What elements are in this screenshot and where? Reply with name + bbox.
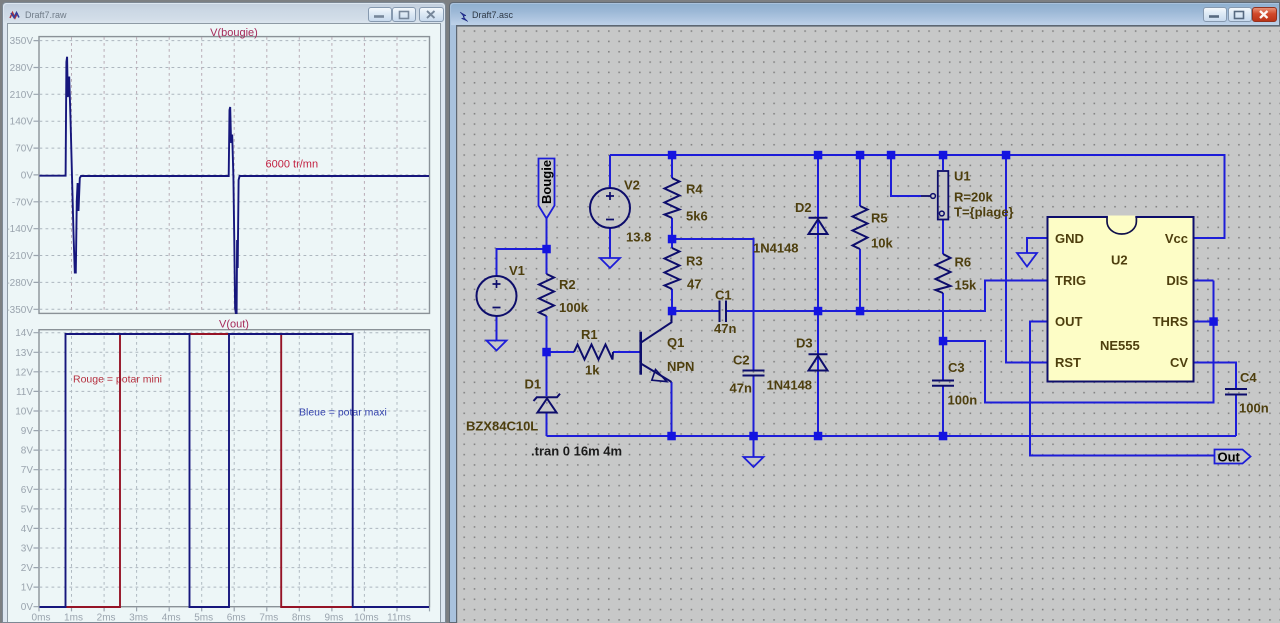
resistor R2 body	[539, 274, 554, 316]
pane 1 y ticks	[34, 41, 40, 310]
node D3 ground bus	[814, 432, 823, 441]
pane 2 x labels	[32, 613, 411, 623]
left window: Draft7.raw waveform viewer	[2, 2, 446, 623]
wire U1 bottom to R6	[942, 220, 944, 255]
pane 1 grid	[40, 41, 430, 310]
svg-text:.tran 0 16m 4m: .tran 0 16m 4m	[531, 444, 622, 459]
node E R2/R1/D1	[542, 348, 551, 357]
svg-text:V2: V2	[624, 178, 640, 193]
wire R5 bottom lead	[859, 249, 861, 311]
voltage source V2 circle	[590, 188, 630, 228]
svg-text:TRIG: TRIG	[1055, 273, 1086, 288]
node D2 top bus	[814, 151, 823, 160]
svg-text:4ms: 4ms	[162, 613, 181, 623]
svg-text:5ms: 5ms	[194, 613, 213, 623]
node Q1 emitter ground bus	[667, 432, 676, 441]
svg-text:12V: 12V	[15, 367, 33, 378]
svg-text:1ms: 1ms	[64, 613, 83, 623]
node THRS/DIS	[1209, 317, 1218, 326]
pane 1 y labels	[6, 36, 33, 316]
svg-text:47n: 47n	[730, 381, 752, 396]
svg-text:8ms: 8ms	[292, 613, 311, 623]
node D2/D3 trigger line	[814, 307, 823, 316]
svg-text:V1: V1	[509, 263, 525, 278]
svg-text:6000 tr/mn: 6000 tr/mn	[266, 159, 319, 171]
svg-text:D1: D1	[525, 377, 542, 392]
svg-text:R4: R4	[686, 182, 703, 197]
svg-text:100k: 100k	[559, 300, 589, 315]
wire top supply bus	[610, 155, 1225, 238]
svg-text:NE555: NE555	[1100, 338, 1140, 353]
wire V2 top lead	[609, 155, 611, 189]
node A R4/R3/C2	[668, 235, 677, 244]
svg-text:100n: 100n	[1239, 401, 1269, 416]
wire R4 top	[671, 155, 673, 178]
wire Bougie port to node D	[546, 219, 548, 250]
potentiometer U1 body	[938, 171, 949, 220]
svg-text:R6: R6	[955, 255, 972, 270]
close	[1252, 7, 1277, 22]
pane 2 y ticks	[34, 333, 40, 607]
svg-text:D2: D2	[795, 200, 812, 215]
wire C2 ground stem	[753, 436, 755, 457]
minimize	[1203, 7, 1227, 22]
svg-text:6V: 6V	[21, 485, 34, 496]
node C R6/C3/THRS	[939, 337, 948, 346]
svg-text:Q1: Q1	[667, 335, 684, 350]
svg-text:Rouge = potar mini: Rouge = potar mini	[73, 374, 162, 386]
svg-text:70V: 70V	[15, 144, 33, 155]
svg-text:Vcc: Vcc	[1165, 231, 1188, 246]
node R4 top bus	[668, 151, 677, 160]
ground symbol at U2 GND	[1017, 253, 1037, 267]
right window: Draft7.asc schematic	[449, 2, 1280, 623]
svg-text:8V: 8V	[21, 446, 34, 457]
wire CV to C4	[1194, 363, 1237, 390]
capacitor C3 plates	[932, 381, 954, 386]
junction nodes	[542, 151, 1218, 441]
svg-text:15k: 15k	[955, 278, 977, 293]
svg-text:350V: 350V	[10, 36, 34, 47]
wire Q1 emitter to ground bus	[671, 382, 673, 436]
wire D1 top lead	[546, 352, 548, 396]
wire R6 bottom to node C	[942, 293, 944, 381]
pane 2 grid verticals	[72, 330, 398, 606]
ground symbol under V2	[600, 258, 620, 268]
svg-text:R3: R3	[686, 254, 703, 269]
svg-text:U1: U1	[954, 169, 971, 184]
svg-text:3ms: 3ms	[129, 613, 148, 623]
wire trigger line left of C1	[672, 310, 720, 312]
svg-text:-210V: -210V	[7, 251, 33, 262]
IC U2 NE555 body	[1048, 216, 1194, 382]
resistor R3 body	[665, 248, 680, 289]
wire U1 wiper from bus	[891, 155, 921, 196]
maximize	[1228, 7, 1252, 22]
wire DIS pin	[1194, 280, 1214, 282]
svg-text:280V: 280V	[10, 63, 34, 74]
pane 2 y labels	[15, 328, 33, 613]
svg-text:-140V: -140V	[7, 224, 33, 235]
svg-text:10k: 10k	[871, 236, 893, 251]
diode D3	[809, 354, 828, 370]
node U1 top bus	[939, 151, 948, 160]
wire Vcc bus to RST	[1006, 155, 1048, 363]
resistor R5 body	[853, 206, 868, 249]
LTspice icon	[459, 11, 469, 24]
svg-text:5k6: 5k6	[686, 209, 708, 224]
svg-text:R5: R5	[871, 211, 888, 226]
svg-text:100n: 100n	[948, 393, 978, 408]
svg-text:C4: C4	[1240, 370, 1257, 385]
svg-text:Bougie: Bougie	[539, 160, 554, 204]
wire R1 to Q1 base	[613, 351, 641, 353]
node U1 wiper bus	[887, 151, 896, 160]
svg-text:V(bougie): V(bougie)	[210, 27, 258, 39]
svg-text:0V: 0V	[21, 170, 34, 181]
wire R3 bottom to node B	[671, 289, 673, 311]
svg-text:R2: R2	[559, 277, 576, 292]
wire C3 bottom to ground bus	[942, 386, 944, 436]
transistor Q1	[639, 332, 642, 375]
svg-text:11V: 11V	[16, 387, 33, 398]
svg-text:1N4148: 1N4148	[753, 241, 799, 256]
wire V1 bottom to ground	[496, 316, 498, 341]
svg-text:NPN: NPN	[667, 359, 694, 374]
svg-text:R1: R1	[581, 327, 598, 342]
wire ground bus bottom	[547, 435, 1237, 437]
svg-text:10V: 10V	[15, 407, 33, 418]
svg-text:7V: 7V	[21, 465, 34, 476]
wire node D to V1	[497, 249, 547, 276]
svg-text:2ms: 2ms	[97, 613, 116, 623]
wire trigger line right of C1 to TRIG	[726, 281, 1048, 312]
resistor R6 body	[936, 254, 951, 293]
svg-text:13V: 13V	[15, 348, 33, 359]
wire D3 column	[817, 311, 819, 436]
wire R2 bottom lead	[546, 316, 548, 352]
wire OUT pin to Out port	[1030, 322, 1215, 456]
svg-text:47: 47	[687, 277, 701, 292]
svg-text:GND: GND	[1055, 231, 1084, 246]
svg-text:2V: 2V	[21, 563, 34, 574]
svg-text:DIS: DIS	[1166, 273, 1188, 288]
wire C2 bottom to ground bus	[753, 376, 755, 437]
node C2 ground bus	[749, 432, 758, 441]
wire U1 top lead	[942, 155, 944, 170]
svg-text:9V: 9V	[21, 426, 34, 437]
svg-text:13.8: 13.8	[626, 230, 651, 245]
svg-text:RST: RST	[1055, 355, 1081, 370]
trace V(bougie)	[40, 57, 430, 313]
svg-text:14V: 14V	[15, 328, 33, 339]
wire C4 bottom to ground bus	[1235, 395, 1237, 437]
zener diode D1	[534, 394, 561, 401]
svg-text:47n: 47n	[714, 321, 736, 336]
node C3 ground bus	[939, 432, 948, 441]
wire D2 column	[817, 155, 819, 311]
svg-text:-70V: -70V	[12, 197, 33, 208]
minimize	[368, 7, 392, 22]
svg-text:11ms: 11ms	[387, 613, 411, 623]
voltage source V1 circle	[477, 276, 517, 316]
waveform plot contents	[7, 24, 441, 623]
resistor R1 body	[574, 345, 613, 360]
svg-text:3V: 3V	[21, 544, 34, 555]
capacitor C2 plates	[743, 371, 765, 376]
node D Bougie/V1/R2	[542, 245, 551, 254]
wire THRS pin	[1194, 321, 1214, 323]
svg-text:U2: U2	[1111, 253, 1128, 268]
wire GND pin to ground	[1027, 238, 1048, 253]
trace V(out) red potar mini	[40, 334, 430, 607]
maximize	[392, 7, 416, 22]
svg-text:6ms: 6ms	[227, 613, 246, 623]
svg-text:-350V: -350V	[7, 305, 33, 316]
ground symbol under V1	[487, 341, 507, 351]
svg-text:C3: C3	[948, 360, 965, 375]
svg-text:10ms: 10ms	[354, 613, 378, 623]
wire R2 top lead	[546, 249, 548, 274]
capacitor C4 plates	[1225, 389, 1247, 395]
window icon left	[9, 10, 22, 23]
wire node E to R1	[547, 351, 575, 353]
svg-text:THRS: THRS	[1153, 314, 1189, 329]
svg-text:CV: CV	[1170, 355, 1188, 370]
svg-text:7ms: 7ms	[259, 613, 278, 623]
port flag Out	[1215, 450, 1251, 464]
svg-text:OUT: OUT	[1055, 314, 1083, 329]
pane 2 frame V(out)	[39, 330, 430, 607]
wire R4 to R3 node A	[671, 218, 673, 248]
resistor R4 body	[665, 178, 680, 218]
svg-text:4V: 4V	[21, 524, 34, 535]
schematic contents	[456, 25, 1280, 623]
svg-text:C1: C1	[715, 288, 732, 303]
svg-text:1N4148: 1N4148	[767, 378, 813, 393]
svg-text:0ms: 0ms	[32, 613, 51, 623]
svg-text:R=20k: R=20k	[954, 190, 993, 205]
svg-text:140V: 140V	[10, 117, 34, 128]
svg-text:T={plage}: T={plage}	[954, 205, 1014, 220]
wire V2 bottom to ground	[609, 228, 611, 259]
wire node A to C2 column	[672, 239, 754, 371]
wire node C to THRS/DIS	[943, 281, 1214, 403]
node R5 top bus	[856, 151, 865, 160]
pane 1 frame V(bougie)	[39, 37, 430, 314]
close	[419, 7, 444, 22]
node RST bus	[1002, 151, 1011, 160]
pane 2 grid horizontals	[40, 333, 430, 587]
svg-text:1V: 1V	[21, 583, 34, 594]
node R5 trigger line	[856, 307, 865, 316]
svg-text:D3: D3	[796, 336, 813, 351]
svg-text:-280V: -280V	[7, 278, 33, 289]
svg-text:C2: C2	[733, 353, 750, 368]
svg-text:BZX84C10L: BZX84C10L	[466, 419, 538, 434]
svg-text:9ms: 9ms	[324, 613, 343, 623]
svg-text:Out: Out	[1218, 450, 1241, 465]
wire D1 bottom lead	[546, 412, 548, 436]
ground symbol under C2	[744, 457, 764, 467]
svg-text:5V: 5V	[21, 504, 34, 515]
wire R5 top lead	[859, 155, 861, 206]
svg-text:V(out): V(out)	[219, 319, 249, 331]
port flag Bougie	[539, 159, 555, 219]
diode D2	[809, 218, 828, 234]
svg-text:210V: 210V	[10, 90, 34, 101]
trace V(out) blue potar maxi	[40, 334, 430, 607]
node B R3/C1/Q1	[668, 307, 677, 316]
svg-text:Bleue = potar maxi: Bleue = potar maxi	[299, 407, 387, 419]
svg-text:1k: 1k	[585, 363, 600, 378]
capacitor C1 plates	[720, 301, 727, 323]
pane 2 x ticks	[39, 607, 430, 611]
